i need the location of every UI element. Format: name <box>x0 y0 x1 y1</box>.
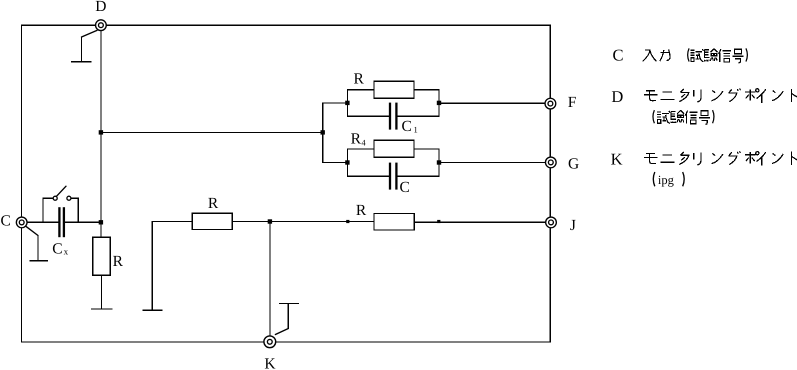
ground (shield of terminal K) lead <box>287 303 289 328</box>
capacitor C (lower) <box>389 163 391 190</box>
wire resistor R4 right lead <box>414 148 439 150</box>
legend line 2: モニタリングポイント <box>644 88 797 102</box>
resistor R (row2 second) <box>374 214 414 231</box>
wire stub to upper RC <box>323 102 348 104</box>
svg-text:C: C <box>52 241 62 258</box>
svg-text:K: K <box>611 149 623 168</box>
legend line 5 parens: （ipg） <box>653 172 684 186</box>
ground under vertical R <box>92 308 112 310</box>
resistor R (row2 first) <box>192 213 232 229</box>
wire second R left lead <box>348 220 374 222</box>
svg-text:R: R <box>208 195 219 212</box>
capacitor C1 <box>389 103 391 130</box>
wire bracket vertical <box>322 103 324 163</box>
wire resistor R4 left lead <box>347 148 374 150</box>
legend line 4: モニタリングポイント <box>644 151 797 165</box>
capacitor Cx <box>58 207 60 237</box>
terminal G <box>545 157 556 168</box>
wire from terminal C to capacitor Cx <box>27 221 58 223</box>
svg-text:G: G <box>568 155 579 172</box>
svg-text:4: 4 <box>361 137 366 147</box>
terminal C <box>16 217 27 228</box>
resistor R4 <box>374 140 414 157</box>
shield diagonal at C <box>26 227 38 236</box>
terminal D <box>96 20 107 31</box>
shield diagonal at K <box>275 329 288 335</box>
svg-text:ipg: ipg <box>658 173 675 187</box>
ground (shield of terminal D) lead <box>81 37 83 62</box>
svg-text:x: x <box>64 246 69 256</box>
junction on D line at feed wire <box>99 130 103 134</box>
legend latin letters <box>611 46 675 187</box>
wire lower RC left vertical (node C') <box>346 149 348 176</box>
junction lower RC right node <box>437 160 441 164</box>
switch S1 right contact <box>67 196 71 200</box>
junction at bracket split <box>321 130 325 134</box>
junction dot after second R <box>437 220 440 223</box>
resistor R vertical <box>93 237 111 275</box>
ground (shield of terminal C) bar <box>30 260 48 262</box>
junction dot before second R <box>346 220 349 223</box>
wire capacitor C lower left lead <box>347 175 388 177</box>
wire K drop <box>269 222 271 337</box>
switch lever diagonal <box>57 186 66 196</box>
legend line 1: 入力（試験信号） <box>643 48 748 62</box>
svg-text:C: C <box>613 46 624 65</box>
wire switch branch right horizontal <box>71 197 78 199</box>
terminals (BNC double circles) <box>16 20 556 348</box>
junction at K branch <box>268 219 272 223</box>
svg-text:F: F <box>568 94 577 111</box>
wire switch branch left vertical <box>42 198 44 222</box>
wire grounded branch vertical <box>151 221 153 310</box>
svg-text:K: K <box>264 356 276 370</box>
wire mid horizontal feed <box>101 131 323 133</box>
wire upper RC left vertical (node A) <box>346 90 348 116</box>
wire stub to lower RC <box>323 162 348 164</box>
wire to first R <box>152 220 192 222</box>
wire to resistor R upper left lead <box>347 89 374 91</box>
svg-text:J: J <box>570 217 576 234</box>
wire resistor R upper right lead <box>414 89 439 91</box>
wire switch branch left horizontal <box>43 197 53 199</box>
terminal J <box>546 217 557 228</box>
svg-text:R: R <box>113 253 124 270</box>
switch S1 left contact <box>53 196 57 200</box>
wire capacitor C lower right lead <box>398 175 439 177</box>
svg-text:D: D <box>95 0 106 15</box>
wire switch branch right vertical <box>77 198 79 222</box>
wire capacitor C1 left lead <box>347 115 388 117</box>
junction lower RC left node <box>345 160 349 164</box>
wire to G <box>439 162 545 164</box>
junction on D line at C row <box>99 220 103 224</box>
svg-text:C: C <box>1 213 11 230</box>
svg-text:R: R <box>354 70 365 87</box>
resistor R (upper) <box>374 81 414 98</box>
junction upper RC right node <box>437 101 441 105</box>
svg-text:C: C <box>402 118 412 135</box>
terminal K <box>264 336 276 348</box>
svg-text:D: D <box>611 87 623 106</box>
terminal F <box>545 98 556 109</box>
shield diagonal at D <box>82 30 98 37</box>
junction upper RC left node <box>345 101 349 105</box>
wire capacitor C1 right lead <box>398 115 439 117</box>
svg-text:R: R <box>356 202 367 219</box>
wire to J <box>414 221 545 223</box>
svg-text:1: 1 <box>414 125 418 135</box>
ground (shield of terminal D) bar <box>72 61 91 63</box>
wire upper RC right vertical (node B) <box>438 90 440 116</box>
ground (shield of terminal K) bar <box>280 302 299 304</box>
wire D vertical drop <box>100 31 102 238</box>
ground (shield of terminal C) lead <box>37 236 39 261</box>
wire to F <box>439 102 545 104</box>
wire lower RC right vertical (node D') <box>438 149 440 176</box>
wire between first R and node to K <box>232 220 347 222</box>
legend line 3: （試験信号） <box>653 110 714 124</box>
outer box <box>22 25 551 342</box>
svg-text:R: R <box>351 131 362 148</box>
wire from capacitor Cx to junction at D line <box>65 221 101 223</box>
ground at grounded branch <box>143 309 161 311</box>
svg-text:C: C <box>400 179 410 196</box>
wire R to ground <box>100 275 102 309</box>
